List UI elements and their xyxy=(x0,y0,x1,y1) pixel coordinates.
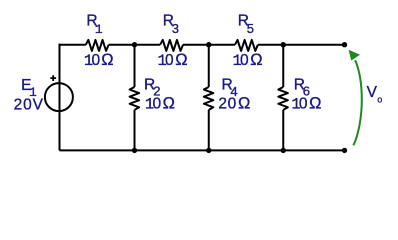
svg-text:10Ω: 10Ω xyxy=(145,94,175,113)
svg-text:o: o xyxy=(377,94,382,104)
Vo arrowhead (green) xyxy=(349,50,360,61)
wire: left rail through source xyxy=(59,44,61,151)
wire: bottom rail xyxy=(60,149,345,151)
svg-text:5: 5 xyxy=(247,21,254,36)
label Vo xyxy=(367,84,383,104)
resistor R6 zigzag xyxy=(278,87,288,110)
voltage source E1 circle xyxy=(45,83,73,111)
junction node B top xyxy=(206,42,211,47)
wire: R3 to node B xyxy=(183,44,235,46)
resistor R5 zigzag xyxy=(235,40,258,51)
output node top right xyxy=(342,42,347,47)
svg-text:10Ω: 10Ω xyxy=(158,51,188,70)
wire: R1 to node A xyxy=(109,44,161,46)
label R2 xyxy=(144,77,161,99)
svg-text:20V: 20V xyxy=(14,97,44,114)
output node bottom right xyxy=(342,148,347,153)
resistor R3 zigzag xyxy=(160,40,183,51)
label R1 xyxy=(86,12,103,36)
junction node C top xyxy=(281,42,286,47)
resistor R1 zigzag xyxy=(86,40,109,51)
polarity plus sign of E1 xyxy=(50,75,56,81)
wire: top rail corner to R1 xyxy=(59,44,86,46)
junction node B bottom xyxy=(206,148,211,153)
junction node C bottom xyxy=(281,148,286,153)
label E1 xyxy=(21,77,37,100)
Vo measurement arrow arc (green) xyxy=(353,60,361,145)
label R5 xyxy=(238,12,254,36)
wire: lower lead of R2 xyxy=(134,110,136,151)
svg-text:3: 3 xyxy=(172,21,179,36)
svg-text:V: V xyxy=(367,84,378,101)
resistor R4 zigzag xyxy=(204,87,214,110)
svg-text:1: 1 xyxy=(95,22,103,37)
svg-text:10Ω: 10Ω xyxy=(233,51,263,70)
wire: lower lead of R6 xyxy=(282,110,284,151)
svg-text:10Ω: 10Ω xyxy=(291,94,321,113)
svg-text:20Ω: 20Ω xyxy=(218,94,250,112)
junction node A top xyxy=(132,42,137,47)
resistor R2 zigzag xyxy=(130,87,140,110)
wire: node C upper lead of R6 xyxy=(282,45,284,87)
label R4 xyxy=(222,77,238,99)
label R3 xyxy=(163,12,179,36)
wire: R5 to output node xyxy=(258,44,345,46)
wire: node B upper lead of R4 xyxy=(208,45,210,87)
label R6 xyxy=(294,77,310,99)
wire: lower lead of R4 xyxy=(208,110,210,151)
wire: node A upper lead of R2 xyxy=(134,45,136,87)
svg-text:10Ω: 10Ω xyxy=(84,51,114,70)
junction node A bottom xyxy=(132,148,137,153)
